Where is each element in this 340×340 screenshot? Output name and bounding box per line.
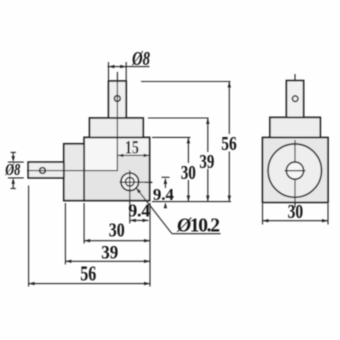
svg-text:56: 56	[221, 133, 237, 155]
right view: top shaft	[286, 81, 303, 118]
svg-text:Ø10.2: Ø10.2	[176, 215, 220, 236]
dimension: right vertical 30	[152, 137, 191, 201]
right view: large boss circle	[268, 144, 321, 197]
left view: top shaft body fill	[109, 81, 127, 118]
right view: body square	[263, 138, 329, 203]
right view: vertical centerline	[294, 74, 296, 208]
dimension: left diameter 8	[8, 152, 24, 188]
right view: shaft cross hole	[292, 96, 298, 102]
left view: top shaft cross hole	[114, 96, 120, 102]
dimension: horizontal 9.4 (hole center to right face)	[130, 219, 149, 222]
right view: centerline over circle	[294, 140, 296, 202]
left view: vertical centerline	[116, 72, 118, 171]
left view: upper flange	[90, 118, 144, 137]
dimension: vertical 9.4 (hole center to bottom)	[145, 177, 170, 208]
left view: hole horizontal crosshair	[120, 181, 153, 183]
right view: small hole horizontal centerline	[285, 170, 306, 172]
dimension: bottom 30 (body width)	[84, 203, 150, 287]
svg-text:9.4: 9.4	[128, 201, 150, 221]
svg-text:30: 30	[109, 221, 125, 242]
dimension: right view bottom 30	[263, 204, 329, 225]
left view: left shaft	[28, 162, 64, 178]
extension: body bottom extended right	[152, 201, 231, 203]
svg-text:30: 30	[288, 202, 304, 223]
svg-text:15: 15	[125, 137, 139, 158]
svg-text:Ø8: Ø8	[5, 160, 21, 179]
left view: body light patch upper-left	[86, 139, 118, 171]
left view: left mounting flange	[64, 144, 84, 201]
dimension: 15 (centerline to right face)	[118, 154, 150, 157]
left view: output hole inner circle	[126, 178, 135, 187]
dimension: bottom 39	[65, 203, 150, 265]
left view: left shaft cross hole	[40, 168, 46, 174]
left view: horizontal centerline	[27, 170, 118, 172]
svg-text:39: 39	[101, 243, 118, 264]
right view: small center hole	[286, 162, 303, 179]
svg-text:56: 56	[80, 261, 96, 285]
left view: main body	[84, 137, 150, 200]
svg-text:30: 30	[181, 162, 196, 184]
leader: diameter 10.2 callout	[136, 188, 221, 234]
left view: hole vertical crosshair	[129, 170, 131, 223]
right view: flange	[270, 117, 320, 137]
left view: body light patch 15-box	[118, 139, 149, 155]
dimension: right vertical 56	[141, 82, 231, 202]
dimension: right vertical 39	[148, 118, 210, 202]
dimension: top diameter 8	[108, 62, 150, 80]
svg-text:9.4: 9.4	[153, 185, 175, 204]
svg-text:39: 39	[199, 151, 214, 173]
svg-text:Ø8: Ø8	[131, 48, 150, 70]
left view: output hole outer circle (diam 10.2)	[121, 173, 139, 191]
dimension: bottom 56 (overall)	[29, 186, 150, 287]
